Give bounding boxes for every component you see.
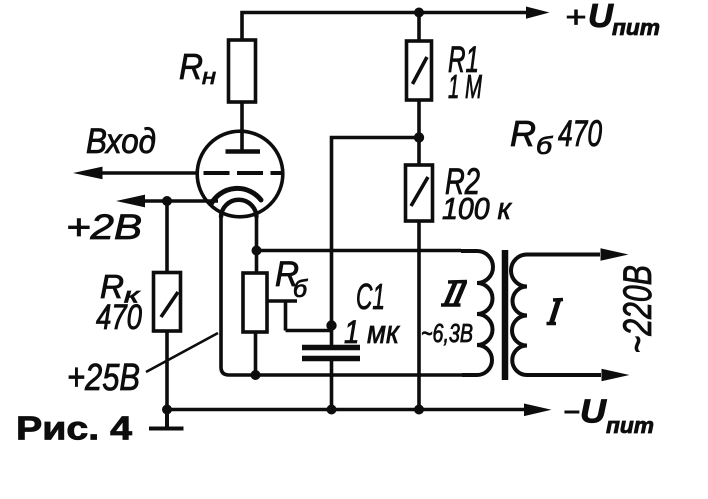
arrow I winding bottom (right) xyxy=(602,369,630,382)
svg-text:Рис. 4: Рис. 4 xyxy=(16,410,133,447)
wire: left filament leg down and along to transformer (bottom heater line) xyxy=(221,216,462,375)
node: junction R1/R2/grid-link xyxy=(414,132,424,142)
svg-text:100 к: 100 к xyxy=(442,191,512,226)
label Vhod (input) xyxy=(86,122,156,161)
wire: Rb tap to C1 top xyxy=(267,301,332,331)
svg-text:С1: С1 xyxy=(356,276,385,317)
svg-text:Вход: Вход xyxy=(86,122,156,161)
caption Ris. 4 xyxy=(16,410,133,447)
label I xyxy=(547,300,564,324)
transformer T1: core xyxy=(502,250,509,380)
label R2 / 100 k xyxy=(442,161,512,226)
svg-text:пит: пит xyxy=(612,15,660,40)
wire: callout line from +25V to cathode lead xyxy=(146,333,218,372)
svg-text:+25В: +25В xyxy=(67,357,140,399)
svg-text:н: н xyxy=(202,64,216,89)
svg-text:−: − xyxy=(563,396,580,429)
ground stub below rail xyxy=(149,410,184,429)
tube V1: envelope xyxy=(197,131,283,217)
wire: R1 bottom to R2 top xyxy=(417,100,421,165)
node: junction top rail / R1 xyxy=(414,8,424,18)
resistor Rb (body) xyxy=(243,273,267,332)
tube V1: cathode arc xyxy=(211,188,261,204)
capacitor C1: plates xyxy=(302,345,360,350)
arrow to -Upit xyxy=(524,404,552,417)
resistor Rk (body with slash) xyxy=(154,273,181,332)
wire: R1 top lead xyxy=(417,13,421,42)
svg-text:1 М: 1 М xyxy=(448,68,482,105)
label Rk 470 xyxy=(96,268,142,337)
node: junction R2 / rail xyxy=(414,405,424,415)
label +2V xyxy=(66,208,142,247)
wire: right filament leg xyxy=(255,216,259,251)
label Rb xyxy=(275,255,309,303)
label C1 / 1 mk xyxy=(344,276,401,350)
svg-text:+2В: +2В xyxy=(66,208,142,247)
label R1 / 1 M xyxy=(448,39,482,105)
tube V1: grid (dashed) xyxy=(204,171,284,175)
svg-text:R: R xyxy=(179,46,203,87)
wire: Rk top lead xyxy=(165,201,169,273)
transformer T1: winding II xyxy=(461,251,493,375)
node: junction tap / C1 xyxy=(326,320,336,330)
arrow to +Upit xyxy=(526,7,550,19)
label -Upit xyxy=(563,393,654,438)
svg-text:б: б xyxy=(536,133,554,160)
wire: Rk bottom lead to rail xyxy=(165,331,169,410)
label +25V xyxy=(67,357,140,399)
svg-text:б: б xyxy=(293,276,309,303)
svg-text:+: + xyxy=(565,1,586,34)
svg-text:R: R xyxy=(510,113,536,154)
svg-text:1 мк: 1 мк xyxy=(344,314,401,350)
tube V1: filament arc xyxy=(221,200,257,218)
wire: anode lead from Rn to tube xyxy=(240,102,244,152)
wire: R2 bottom to -Upit rail xyxy=(417,221,421,410)
node: junction filament / II winding line xyxy=(252,246,262,256)
wire: link from junction to C1 column xyxy=(332,138,420,326)
wire: -Upit bottom rail xyxy=(167,408,525,412)
tube V1: anode bar xyxy=(226,149,261,154)
capacitor C1: bottom lead to rail xyxy=(330,361,334,410)
label Rn xyxy=(179,46,216,89)
resistor Rn (body) xyxy=(229,40,256,102)
wire: +Upit top rail with corner above Rn xyxy=(242,13,527,41)
svg-text:пит: пит xyxy=(606,413,654,438)
node: junction +2V / Rk xyxy=(162,196,172,206)
wire: Rb top lead xyxy=(255,251,259,274)
svg-text:~6,3В: ~6,3В xyxy=(421,318,473,348)
label ~220V (rotated) xyxy=(616,265,660,354)
transformer T1: winding I xyxy=(511,255,601,376)
wire: +2V line from cathode left xyxy=(141,199,218,203)
wire: Rb bottom lead xyxy=(254,332,258,375)
node: junction Rk / rail xyxy=(162,405,172,415)
wire: grid lead to input xyxy=(102,171,198,175)
arrow I winding top (right) xyxy=(601,248,629,261)
wire: heater top line from filament to transformer II xyxy=(257,249,462,253)
resistor R2 (body with slash) xyxy=(406,165,433,221)
svg-text:~220В: ~220В xyxy=(616,265,660,354)
node: junction C1 / rail xyxy=(327,405,337,415)
svg-text:U: U xyxy=(588,0,614,34)
label II xyxy=(441,282,467,306)
label +Upit xyxy=(565,0,660,40)
svg-text:470: 470 xyxy=(96,298,142,337)
svg-text:U: U xyxy=(580,393,607,430)
resistor R1 (body with slash) xyxy=(407,41,432,100)
node: junction Rb bottom / heater line xyxy=(251,370,261,380)
arrow +2V (left) xyxy=(116,195,145,208)
capacitor C1: top lead xyxy=(330,326,334,346)
label Rb 470 (annotation) xyxy=(510,113,602,160)
arrow input (left) xyxy=(73,167,103,180)
svg-text:470: 470 xyxy=(558,113,602,154)
label ~6,3V xyxy=(421,318,473,348)
